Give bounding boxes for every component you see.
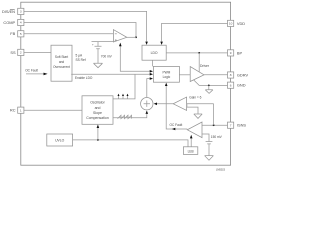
- pin FB: [18, 31, 24, 37]
- wire SS clamp into error amp and to PWM logic: [120, 46, 149, 72]
- svg-text:Driver: Driver: [200, 64, 210, 68]
- clock tick 1: [118, 96, 120, 99]
- arrow clamp into error amp: [119, 43, 122, 47]
- wire comparator minus to 150mV source: [202, 134, 209, 142]
- svg-text:SS Ref: SS Ref: [76, 58, 86, 62]
- wire COMP to error amp output: [24, 23, 136, 38]
- svg-text:Logic: Logic: [163, 75, 171, 79]
- svg-text:ISNS: ISNS: [237, 123, 246, 128]
- svg-text:OC Fault: OC Fault: [170, 123, 183, 127]
- clock tick 3: [127, 96, 129, 99]
- svg-text:RC: RC: [10, 108, 16, 113]
- pin DIS/EN: [18, 8, 24, 14]
- svg-text:Slope: Slope: [93, 111, 102, 115]
- op-amp error amplifier: [113, 30, 126, 42]
- driver amplifier: [190, 67, 204, 82]
- IC boundary box: [21, 2, 231, 165]
- ground under 700mV: [94, 63, 103, 67]
- ground stub on gain amp input: [187, 104, 198, 114]
- svg-text:UVLO: UVLO: [55, 139, 65, 143]
- block LEB: [183, 147, 197, 155]
- summing node: [141, 98, 153, 110]
- wire BP to LDO with branch to driver: [166, 52, 227, 54]
- wire GND with branch to driver and ground: [194, 80, 228, 86]
- svg-text:and: and: [59, 60, 65, 64]
- svg-text:10: 10: [229, 22, 233, 26]
- arrow into summing node bottom: [146, 111, 149, 114]
- pin ISNS: [228, 122, 234, 128]
- wire ISNS to gain amp input: [187, 103, 214, 105]
- wire FB to error amp: [24, 33, 113, 35]
- pin SS: [18, 49, 24, 55]
- comparator OC fault: [187, 122, 202, 138]
- pin BP: [228, 50, 234, 56]
- svg-text:6: 6: [230, 83, 232, 87]
- wire driver to GDRV: [204, 74, 228, 76]
- wire oscillator clock to PWM logic: [113, 74, 135, 99]
- arrow OC fault direction: [172, 128, 175, 131]
- error amp minus mark: [115, 33, 117, 35]
- svg-text:FB: FB: [10, 31, 15, 36]
- arrow into LDO from DIS/EN: [145, 42, 148, 45]
- arrow summer output into PWM logic: [150, 77, 153, 80]
- svg-text:2: 2: [20, 51, 22, 55]
- wire error amp output: [127, 36, 136, 38]
- clock tick 2: [122, 96, 124, 99]
- ground at GND pin: [205, 90, 213, 94]
- wire RC to oscillator: [24, 109, 82, 111]
- block UVLO: [47, 134, 73, 146]
- svg-text:150 mV: 150 mV: [211, 135, 223, 139]
- block Oscillator and Slope Compensation: [82, 96, 113, 125]
- source 150 mV battery: [206, 142, 213, 156]
- svg-text:Soft Start: Soft Start: [55, 55, 68, 59]
- arrow LEB into comparator: [190, 135, 193, 139]
- block LDO: [142, 45, 166, 60]
- block Soft Start and Overcurrent: [51, 45, 72, 81]
- pin RC: [18, 107, 24, 113]
- error amp plus mark: [115, 39, 117, 41]
- arrow enable into PWM logic: [150, 73, 153, 76]
- svg-text:GND: GND: [237, 83, 246, 88]
- pin COMP: [18, 19, 24, 25]
- svg-text:OC Fault: OC Fault: [25, 69, 38, 73]
- arrow into PWM logic bottom: [165, 83, 168, 86]
- svg-text:Enable LDO: Enable LDO: [75, 76, 93, 80]
- svg-text:Overcurrent: Overcurrent: [53, 65, 70, 69]
- svg-text:8: 8: [230, 73, 232, 77]
- amplifier Gain = 6: [173, 97, 186, 110]
- svg-text:SS: SS: [10, 50, 16, 55]
- svg-text:9: 9: [230, 51, 232, 55]
- block PWM Logic: [153, 66, 179, 82]
- svg-text:LDO: LDO: [151, 51, 158, 55]
- wire ISNS to comparator: [202, 124, 228, 126]
- source 700 mV battery: [95, 46, 102, 48]
- svg-text:LM5023: LM5023: [216, 168, 226, 171]
- arrow OC fault into block: [44, 73, 48, 76]
- wire source to ground: [97, 49, 99, 64]
- pin GND: [228, 82, 234, 88]
- svg-text:7: 7: [230, 123, 232, 127]
- svg-text:BP: BP: [237, 50, 243, 55]
- svg-text:and: and: [95, 106, 101, 110]
- arrow into summing node right: [154, 103, 157, 106]
- svg-text:Gain = 6: Gain = 6: [189, 96, 201, 100]
- wire SS to soft start block: [24, 51, 51, 53]
- svg-text:700 mV: 700 mV: [101, 54, 113, 58]
- svg-text:COMP: COMP: [3, 20, 15, 25]
- wire junction up to oscillator: [97, 128, 99, 140]
- wire summing node output to PWM logic: [147, 79, 150, 98]
- node COMP junction: [135, 36, 137, 38]
- svg-text:1: 1: [20, 108, 22, 112]
- wire 700mV ref to error amp: [92, 42, 114, 47]
- wire PWM logic to driver input: [179, 74, 190, 76]
- svg-text:3: 3: [20, 10, 22, 14]
- svg-text:5: 5: [20, 32, 22, 36]
- svg-text:LEB: LEB: [188, 150, 194, 154]
- node UVLO junction: [97, 139, 99, 141]
- svg-text:Compensation: Compensation: [86, 116, 109, 120]
- wire OC fault output to PWM logic: [166, 86, 187, 129]
- arrow into PWM logic top: [150, 70, 153, 73]
- wire oscillator slope ramp to summing node: [113, 114, 147, 118]
- svg-text:5 µA: 5 µA: [76, 54, 83, 58]
- wire LEB to comparator: [190, 138, 192, 147]
- wire UVLO line to oscillator and LEB: [73, 140, 188, 147]
- wire LDO to PWM logic: [151, 60, 153, 66]
- sawtooth glyph: [118, 115, 132, 118]
- pin VDD: [228, 20, 234, 26]
- arrow into oscillator bottom: [97, 125, 100, 129]
- svg-text:PWM: PWM: [163, 70, 171, 74]
- svg-text:4: 4: [20, 21, 22, 25]
- pin GDRV: [228, 72, 234, 78]
- wire gain amp output to summing node: [157, 103, 173, 105]
- svg-text:Oscillator: Oscillator: [90, 101, 105, 105]
- svg-text:VDD: VDD: [237, 21, 245, 26]
- svg-text:GDRV: GDRV: [237, 73, 249, 78]
- wire Enable LDO to PWM logic: [71, 73, 149, 75]
- wire DIS/EN to LDO: [24, 11, 147, 41]
- arrow into LDO from VDD: [160, 42, 163, 45]
- wire VDD to LDO: [162, 23, 228, 41]
- ground under 150mV: [205, 156, 214, 161]
